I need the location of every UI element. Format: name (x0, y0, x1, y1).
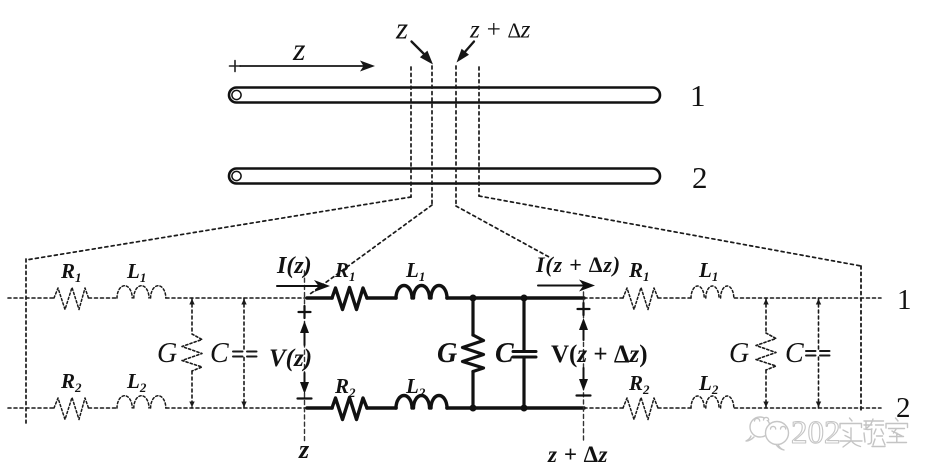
resistor R2 bold (332, 398, 367, 420)
guide line z+dz (middle-right boundary) (583, 292, 585, 443)
svg-text:C: C (785, 338, 804, 369)
watermark text shi (840, 418, 862, 447)
svg-text:z + Δz: z + Δz (469, 17, 531, 44)
current I(z) arrow (277, 280, 330, 292)
voltage V(z) minus (298, 397, 312, 399)
section marker z+dz arrow (457, 42, 475, 63)
capacitor C right-cell (806, 298, 830, 408)
svg-text:z + Δz: z + Δz (547, 442, 608, 467)
voltage V(z) plus (299, 306, 311, 318)
inductor L2 bold (396, 396, 447, 409)
wire bottom rail bold (307, 406, 584, 410)
svg-text:L1: L1 (698, 258, 718, 284)
wire bottom rail dotted left (8, 407, 307, 409)
watermark text shi2 (886, 418, 908, 443)
wire top rail bold (307, 296, 584, 300)
node dot top-G (470, 295, 477, 302)
svg-text:1: 1 (690, 78, 706, 113)
svg-text:2: 2 (692, 160, 708, 195)
svg-text:202: 202 (791, 415, 841, 451)
voltage V(z+dz) minus (577, 394, 591, 396)
fan line inner-right (456, 206, 549, 257)
conductance G left-cell (182, 298, 202, 408)
svg-text:L2: L2 (698, 371, 719, 397)
voltage V(z+dz) down arrow (579, 368, 588, 391)
voltage V(z) down arrow (300, 373, 309, 394)
inductor L2 left-cell (117, 396, 166, 408)
wire top rail dotted right (584, 297, 881, 299)
svg-text:z: z (292, 31, 306, 67)
svg-text:L1: L1 (126, 259, 146, 285)
fan line inner-left (310, 205, 432, 294)
current I(z+dz) arrow (538, 280, 595, 292)
node dot bottom-G (470, 405, 477, 412)
z-axis arrow (240, 61, 375, 72)
capacitor C bold (513, 298, 536, 408)
voltage V(z) up arrow (300, 321, 309, 345)
svg-text:R1: R1 (628, 258, 650, 284)
resistor R1 bold (332, 288, 367, 310)
svg-text:z: z (298, 435, 310, 464)
resistor R2 right-cell (623, 398, 658, 420)
guide line z (middle-left boundary) (304, 271, 306, 441)
right boundary dashed line (860, 266, 862, 413)
wire top rail dotted left (8, 297, 307, 299)
wire bottom rail dotted right (584, 407, 881, 409)
conductance G right-cell (756, 298, 776, 408)
svg-text:1: 1 (897, 284, 912, 316)
svg-text:G: G (437, 338, 457, 369)
svg-text:L2: L2 (126, 369, 147, 395)
node dot top-C (521, 295, 528, 302)
svg-text:I(z + Δz): I(z + Δz) (535, 252, 621, 277)
resistor R1 left-cell (54, 288, 89, 310)
svg-text:L1: L1 (405, 258, 425, 284)
resistor R1 right-cell (623, 288, 658, 310)
section boundary line z+dz-a (455, 66, 457, 206)
svg-text:V(z): V(z) (269, 345, 312, 372)
svg-text:R2: R2 (60, 369, 82, 395)
svg-text:R2: R2 (628, 371, 650, 397)
inductor L1 bold (396, 286, 447, 299)
section marker z arrow (412, 42, 434, 65)
svg-text:z: z (395, 11, 408, 46)
voltage V(z+dz) up arrow (579, 318, 588, 340)
svg-text:I(z): I(z) (276, 253, 312, 279)
node dot bottom-C (521, 405, 528, 412)
svg-text:R2: R2 (334, 374, 356, 400)
svg-text:G: G (157, 338, 177, 369)
conductor 2 (229, 169, 660, 184)
capacitor C left-cell (233, 298, 257, 408)
watermark logo bubbles (746, 417, 789, 450)
svg-text:R1: R1 (60, 259, 82, 285)
left boundary dashed line (25, 259, 27, 423)
svg-text:C: C (495, 338, 514, 369)
svg-text:L2: L2 (405, 374, 426, 400)
section boundary line z-b (431, 66, 433, 205)
inductor L1 right-cell (691, 286, 734, 298)
svg-text:G: G (729, 338, 749, 369)
resistor R2 left-cell (54, 398, 89, 420)
section boundary line z-a (410, 67, 412, 197)
inductor L1 left-cell (117, 286, 166, 298)
conductance G bold (463, 298, 484, 408)
fan line right (479, 196, 861, 266)
conductor 1 (229, 88, 660, 103)
z-axis origin plus (230, 61, 241, 72)
watermark text yan (864, 419, 885, 447)
section boundary line z+dz-b (478, 67, 480, 196)
inductor L2 right-cell (691, 396, 734, 408)
svg-text:2: 2 (896, 392, 911, 424)
svg-text:R1: R1 (334, 258, 356, 284)
voltage V(z+dz) plus (578, 303, 590, 315)
svg-text:C: C (210, 338, 229, 369)
fan line left (26, 197, 411, 260)
svg-text:V(z + Δz): V(z + Δz) (551, 341, 648, 368)
